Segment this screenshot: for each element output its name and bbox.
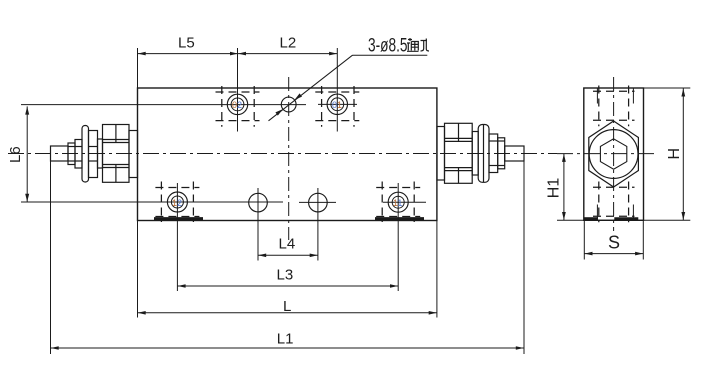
thick bottom slot segment left [154,217,203,220]
L arrows [138,311,146,315]
svg-text:L3: L3 [277,267,294,284]
L6 dimension line [26,106,28,201]
small hex [489,134,498,173]
S dimension line [584,253,643,255]
top hole B vertical crosshair / extension from L2 dim [336,48,338,132]
thick bottom segments [585,217,599,220]
dimension arrowheads [25,52,524,350]
svg-text:H: H [666,148,683,160]
leader arrows at middle hole [275,109,283,116]
H1 arrows [562,154,566,162]
S arrows [585,252,593,256]
bottom circle 2 [249,193,268,212]
bottom circle 3 [309,193,328,212]
inscribed chamfer circle [589,130,638,179]
bottom circle 2 vertical crosshair / extension to L4 [257,188,259,261]
L1 right extension (from nipple tip) [523,161,525,354]
top counterbore solid walls [596,88,598,104]
horizontal axis line through bottom hole row (also L6 bottom extension) [21,201,283,203]
neck [472,132,478,176]
hex nut outline [589,121,639,187]
L1 left extension (from nipple tip) [50,161,52,354]
dimension text labels [7,34,408,347]
nipple [51,146,69,161]
L3 arrows [178,284,186,288]
svg-text:11: 11 [393,198,402,208]
top hole A inner circle [231,98,244,111]
bottom hole 4 inner circle [392,196,404,208]
bottom counterbore solid walls [596,205,598,220]
dimension lines group [27,48,524,354]
bottom hole 4 vertical crosshair / extension to L3 [397,183,399,291]
left threaded fitting [51,125,138,183]
inner hex socket [600,139,626,169]
top hole A counterbore bracket (dashed square) [216,86,260,127]
H1 dimension line [563,154,565,221]
svg-text:H1: H1 [546,178,563,199]
horizontal crosshair of bottom circle 3 [299,201,336,203]
horizontal centerline of part (dash-dot) [8,153,557,155]
bottom hole 4 counterbore bracket (dashed square) [376,182,420,223]
leader underline [353,54,428,56]
side view body outline [584,88,644,220]
side view horizontal centerline (H1 top extension) [557,153,658,155]
side view vertical centerline [613,77,615,231]
nipple [505,146,524,161]
svg-text:12: 12 [172,198,182,208]
flange (tall thin washer) [478,125,489,183]
step to body [129,131,138,178]
flange (tall thin washer) [82,126,89,183]
svg-text:L2: L2 [280,35,297,52]
bottom hole 1 counterbore bracket (dashed square) [155,182,199,223]
svg-text:L1: L1 [277,331,294,348]
top hole B inner circle [331,98,344,111]
small hex [68,143,75,165]
vertical centerline of body (dash-dot) [288,77,290,240]
step from body [437,127,445,181]
svg-text:02: 02 [232,100,242,110]
L5 arrows [138,52,146,56]
horizontal axis line through top hole row (also L6 top extension) [21,104,306,106]
large nut [103,125,130,183]
horizontal crosshair of top-right hole [318,103,357,105]
L5-L2 dimension line [138,53,338,55]
top hidden hole (dashed bracket) [593,86,635,127]
bottom hole 1 vertical crosshair / extension to L3 [176,183,178,291]
main body outline (front view) [138,88,437,221]
right body edge extension (down to L) [436,221,438,318]
left body edge extension (up to L5, down to L) [137,48,139,88]
top edge extension for H [644,87,691,89]
large nut [445,123,473,183]
side view (right) [557,77,690,260]
svg-text:L: L [283,298,291,315]
L1 arrows [51,346,59,350]
L1 dimension line [51,347,525,349]
side view dimension arrowheads [562,89,685,256]
bottom edge extension line (H1 left to H right) [557,219,690,221]
svg-text:L6: L6 [7,146,24,163]
top hole A vertical crosshair / extension from L5-L2 dim [237,48,239,132]
top hole B outer circle [327,94,347,114]
bottom hidden hole (dashed bracket) [593,182,635,223]
L2 arrows [238,52,246,56]
top hole A outer circle [227,94,247,114]
L4 dimension line [258,254,318,256]
bottom hole 4 outer circle [388,192,408,212]
H dimension line [682,88,684,220]
leader line of hole note [269,55,353,121]
L6 arrows [25,107,29,115]
L4 arrows [258,254,266,258]
horizontal crosshair of bottom-right hole [383,201,426,203]
svg-text:L5: L5 [178,35,195,52]
svg-text:L4: L4 [279,235,296,252]
CJK glyph 孔 (hand drawn) [421,39,430,52]
right threaded fitting [437,123,524,183]
S extension lines [583,220,585,259]
svg-text:S: S [608,233,620,253]
bottom hole 1 inner circle [171,196,183,208]
svg-text:01: 01 [332,100,342,110]
CJK glyph 通 (hand drawn) [407,38,419,51]
thick bottom slot segment right [375,217,424,220]
neck [98,139,103,168]
L dimension line [138,312,437,314]
svg-text:3-ø8.5: 3-ø8.5 [368,34,408,56]
top middle hole [281,97,296,112]
bottom hole 1 outer circle [167,192,187,212]
H arrows [681,89,685,97]
top hole B counterbore bracket (dashed square) [315,86,359,127]
L3 dimension line [177,285,398,287]
bottom circle 3 vertical crosshair / extension to L4 [317,188,319,261]
ring block [89,131,98,178]
